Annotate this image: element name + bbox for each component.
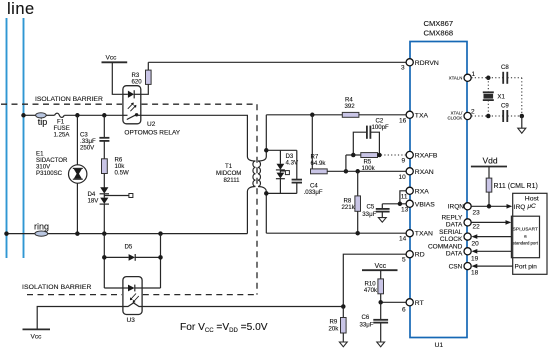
- resistor R9: [342, 307, 344, 318]
- svg-text:Vcc: Vcc: [31, 334, 43, 341]
- isolation barrier 2 dashes: [27, 294, 122, 296]
- svg-text:11: 11: [401, 193, 408, 200]
- svg-text:RXAN: RXAN: [415, 169, 434, 176]
- svg-text:470k: 470k: [364, 287, 378, 294]
- svg-text:100k: 100k: [362, 165, 376, 172]
- resistor R5: [361, 153, 378, 158]
- svg-text:392: 392: [345, 103, 356, 110]
- wire phone line right: [23, 18, 25, 258]
- svg-text:22: 22: [473, 224, 481, 231]
- transformer T1 primary winding: [253, 161, 255, 187]
- wire D3/C4 bottom row: [266, 192, 297, 194]
- wire serial clock arrow: [477, 236, 512, 238]
- wire phone line left: [6, 18, 8, 258]
- node TXA-R7: [310, 113, 315, 118]
- svg-text:5: 5: [402, 256, 406, 263]
- wire command data arrow: [477, 250, 512, 252]
- resistor R3: [146, 70, 152, 84]
- wire TXAN row: [266, 232, 406, 234]
- svg-text:μC: μC: [527, 203, 537, 210]
- wire XTAL pin1 row: [471, 77, 503, 79]
- pin 2 XTAL/CLOCK: [464, 112, 471, 119]
- wire U3 left vertical: [103, 234, 105, 288]
- resistor R6: [102, 159, 108, 174]
- svg-text:DATA: DATA: [446, 221, 463, 228]
- node RD-U3-R9: [341, 304, 346, 309]
- svg-text:33μF: 33μF: [362, 211, 376, 218]
- svg-text:33μF: 33μF: [360, 322, 374, 329]
- svg-text:64.9k: 64.9k: [311, 160, 327, 167]
- resistor R10: [380, 270, 382, 279]
- svg-text:tip: tip: [38, 117, 48, 127]
- svg-text:C6: C6: [362, 314, 370, 321]
- wire Vcc to U2: [112, 62, 123, 94]
- wire RT row: [381, 301, 406, 303]
- wire RXAFB row: [346, 154, 361, 156]
- svg-text:.033μF: .033μF: [304, 189, 323, 196]
- wire U3 output right: [142, 306, 343, 308]
- svg-text:U2: U2: [147, 121, 156, 128]
- svg-text:1.25A: 1.25A: [54, 131, 71, 138]
- svg-text:CLOCK: CLOCK: [440, 236, 463, 243]
- svg-text:16: 16: [399, 117, 407, 124]
- svg-text:DATA: DATA: [446, 251, 463, 258]
- pin 11 RXA: [406, 187, 413, 194]
- wire secondary top to TXA row: [258, 157, 266, 162]
- svg-text:OPTOMOS RELAY: OPTOMOS RELAY: [124, 129, 180, 136]
- isolation barrier 1 dashes: [1, 103, 122, 105]
- svg-text:18V: 18V: [88, 198, 100, 205]
- pin 14 TXAN: [406, 230, 413, 237]
- capacitor C6: [380, 302, 382, 319]
- svg-text:23: 23: [473, 210, 481, 217]
- pin 1 XTALN: [464, 74, 471, 81]
- svg-text:IRQN: IRQN: [448, 204, 465, 211]
- wire R6 to D4: [103, 174, 105, 188]
- zener D3: [279, 150, 281, 164]
- svg-text:C9: C9: [501, 103, 509, 110]
- svg-text:2: 2: [471, 109, 475, 116]
- svg-text:TXA: TXA: [415, 112, 429, 119]
- svg-text:RD: RD: [415, 252, 425, 259]
- capacitor C5: [381, 204, 383, 209]
- svg-text:CMX867: CMX867: [424, 19, 454, 28]
- svg-text:SPI,USART: SPI,USART: [513, 227, 538, 233]
- wire D3/C4 top row: [266, 149, 297, 151]
- svg-text:Port pin: Port pin: [515, 264, 538, 271]
- sidactor E1: [76, 115, 78, 165]
- svg-text:Vcc: Vcc: [106, 55, 118, 62]
- wire D3 tap: [280, 170, 285, 172]
- svg-text:CMX868: CMX868: [424, 28, 454, 37]
- svg-text:ISOLATION BARRIER: ISOLATION BARRIER: [22, 284, 92, 291]
- svg-text:CLOCK: CLOCK: [447, 116, 462, 121]
- pin 22 REPLY DATA: [464, 219, 471, 226]
- svg-text:R11 (CML R1): R11 (CML R1): [494, 183, 538, 190]
- wire TXA row: [266, 114, 342, 116]
- svg-text:R9: R9: [330, 319, 338, 326]
- wire D4 tap: [104, 195, 129, 197]
- ground C6: [377, 342, 385, 347]
- optocoupler U3: [123, 277, 142, 315]
- wire U2 to transformer primary top: [141, 115, 248, 156]
- supply Vcc bottom-left: [23, 328, 51, 330]
- node tip-line2: [21, 113, 26, 118]
- pin 5 RD: [406, 251, 413, 258]
- svg-text:20: 20: [472, 241, 480, 248]
- wire TXA to R7: [311, 115, 313, 172]
- ground C5: [378, 218, 386, 223]
- supply Vcc top: [102, 61, 128, 63]
- svg-text:RDRVN: RDRVN: [415, 60, 439, 67]
- node TXAN-R8: [355, 231, 360, 236]
- svg-text:IRQ: IRQ: [514, 204, 526, 211]
- pin 9 RXAFB: [406, 151, 413, 158]
- svg-text:TXAN: TXAN: [415, 231, 433, 238]
- svg-text:RXAFB: RXAFB: [415, 153, 438, 160]
- capacitor C8: [502, 72, 504, 84]
- wire XTAL pin2 row: [471, 115, 503, 117]
- svg-text:6: 6: [402, 306, 406, 313]
- isolation barrier vertical: [256, 104, 258, 294]
- svg-text:221k: 221k: [342, 204, 356, 211]
- node RXAN-RXAFB drop: [344, 169, 349, 174]
- node RT-R10-C6: [378, 300, 383, 305]
- svg-text:82111: 82111: [224, 177, 241, 184]
- wire RDRVN row: [148, 61, 409, 63]
- pin 10 RXAN: [406, 168, 413, 175]
- fuse F1: [55, 113, 65, 117]
- wire tip row: [24, 114, 36, 116]
- svg-text:19: 19: [471, 256, 479, 263]
- capacitor C2 loop: [353, 132, 366, 155]
- terminal tip oval: [36, 113, 47, 118]
- resistor R4: [342, 112, 359, 117]
- wire R3 bottom to U2: [141, 84, 149, 94]
- wire secondary bottom: [258, 187, 266, 192]
- wire RXA to VBIAS: [400, 191, 406, 204]
- svg-text:C5: C5: [367, 204, 375, 211]
- svg-text:VBIAS: VBIAS: [415, 201, 435, 208]
- svg-text:250V: 250V: [80, 145, 95, 152]
- wire D4 to ring row: [103, 204, 105, 234]
- pin 13 VBIAS: [406, 200, 413, 207]
- terminal ring oval: [35, 231, 48, 236]
- node D5 left: [102, 255, 107, 260]
- svg-text:X1: X1: [497, 94, 505, 101]
- node tip-C3: [102, 113, 107, 118]
- transformer T1 secondary winding: [258, 161, 260, 187]
- svg-text:MIDCOM: MIDCOM: [216, 170, 241, 177]
- wire RXAFB drop: [345, 155, 347, 171]
- wire XTAL right rail: [521, 78, 523, 116]
- host micro box: [513, 193, 547, 274]
- wire U3 led input right: [142, 287, 160, 289]
- capacitor C9: [502, 110, 504, 122]
- wire RD row: [343, 254, 406, 306]
- svg-text:10: 10: [399, 174, 407, 181]
- svg-text:CSN: CSN: [449, 263, 463, 270]
- pin 6 RT: [406, 299, 413, 306]
- svg-text:line: line: [7, 0, 35, 18]
- svg-text:Host: Host: [525, 196, 539, 203]
- resistor R7: [311, 169, 328, 174]
- svg-text:Vdd: Vdd: [483, 156, 498, 166]
- svg-text:RT: RT: [415, 300, 424, 307]
- wire U3 right vertical: [160, 234, 162, 288]
- node D5 right: [158, 255, 163, 260]
- node tip-E1: [75, 113, 80, 118]
- node ring-D4: [102, 231, 107, 236]
- svg-text:C8: C8: [501, 64, 509, 71]
- pin 19 COMMAND DATA: [464, 248, 471, 255]
- node ring-E1: [75, 231, 80, 236]
- pin 16 TXA: [406, 111, 413, 118]
- svg-text:P3100SC: P3100SC: [36, 170, 63, 177]
- optocoupler U2: [123, 86, 141, 124]
- svg-text:D5: D5: [125, 244, 133, 251]
- supply Vdd: [471, 166, 507, 168]
- svg-text:13: 13: [401, 206, 409, 213]
- svg-text:T1: T1: [225, 163, 233, 170]
- node RXAN-R8: [355, 169, 360, 174]
- host inner box SPI/UART: [511, 216, 539, 258]
- IC U1 CMX867/868: [410, 42, 467, 338]
- svg-text:standard port: standard port: [513, 240, 539, 245]
- crystal X1: [487, 78, 489, 92]
- zener D4: [100, 187, 108, 193]
- diode D5: [104, 256, 128, 258]
- svg-text:U1: U1: [435, 342, 444, 349]
- svg-text:18: 18: [471, 270, 479, 277]
- svg-text:ISOLATION BARRIER: ISOLATION BARRIER: [35, 96, 103, 103]
- wire VBIAS row: [382, 203, 406, 205]
- node ring-U3right: [158, 231, 163, 236]
- wire ring row: [7, 233, 35, 235]
- resistor R8: [357, 171, 359, 196]
- wire tip row to U2: [64, 114, 123, 116]
- svg-text:1: 1: [472, 71, 476, 78]
- wire R3 top to RDRVN row: [147, 62, 149, 70]
- svg-text:620: 620: [132, 78, 143, 85]
- svg-text:RXA: RXA: [415, 188, 429, 195]
- wire U3 output to Vcc: [37, 307, 123, 330]
- pin 20 SERIAL CLOCK: [464, 233, 471, 240]
- ground XTAL: [518, 128, 526, 133]
- capacitor C4: [296, 150, 298, 179]
- svg-text:For VCC =VDD =5.0V: For VCC =VDD =5.0V: [180, 322, 268, 334]
- svg-text:Vcc: Vcc: [375, 263, 387, 270]
- pin 3 RDRVN: [406, 59, 413, 66]
- wire CSN arrow: [477, 265, 513, 267]
- supply Vcc bottom: [362, 269, 398, 271]
- svg-text:9: 9: [402, 158, 406, 165]
- wire RXAN row: [327, 170, 406, 172]
- wire IRQN row: [471, 205, 507, 207]
- svg-text:ring: ring: [34, 222, 49, 232]
- svg-text:U3: U3: [127, 317, 136, 324]
- ground R9: [339, 342, 347, 347]
- resistor R11: [488, 167, 490, 179]
- node ring-line1: [4, 231, 9, 236]
- capacitor C3: [103, 115, 105, 137]
- svg-text:XTALN: XTALN: [449, 76, 463, 81]
- svg-text:100pF: 100pF: [372, 124, 390, 131]
- pin 18 CSN: [464, 263, 471, 270]
- svg-text:a: a: [524, 235, 527, 240]
- wire reply data arrow: [471, 221, 506, 223]
- svg-text:3: 3: [401, 65, 405, 72]
- svg-text:20k: 20k: [329, 326, 340, 333]
- wire primary bottom to ring row: [247, 187, 255, 192]
- pin 23 IRQN: [464, 203, 471, 210]
- wire U3 led input left: [104, 287, 123, 289]
- svg-text:0.5W: 0.5W: [115, 170, 129, 177]
- wire tip to fuse: [46, 114, 54, 116]
- svg-text:14: 14: [399, 236, 407, 243]
